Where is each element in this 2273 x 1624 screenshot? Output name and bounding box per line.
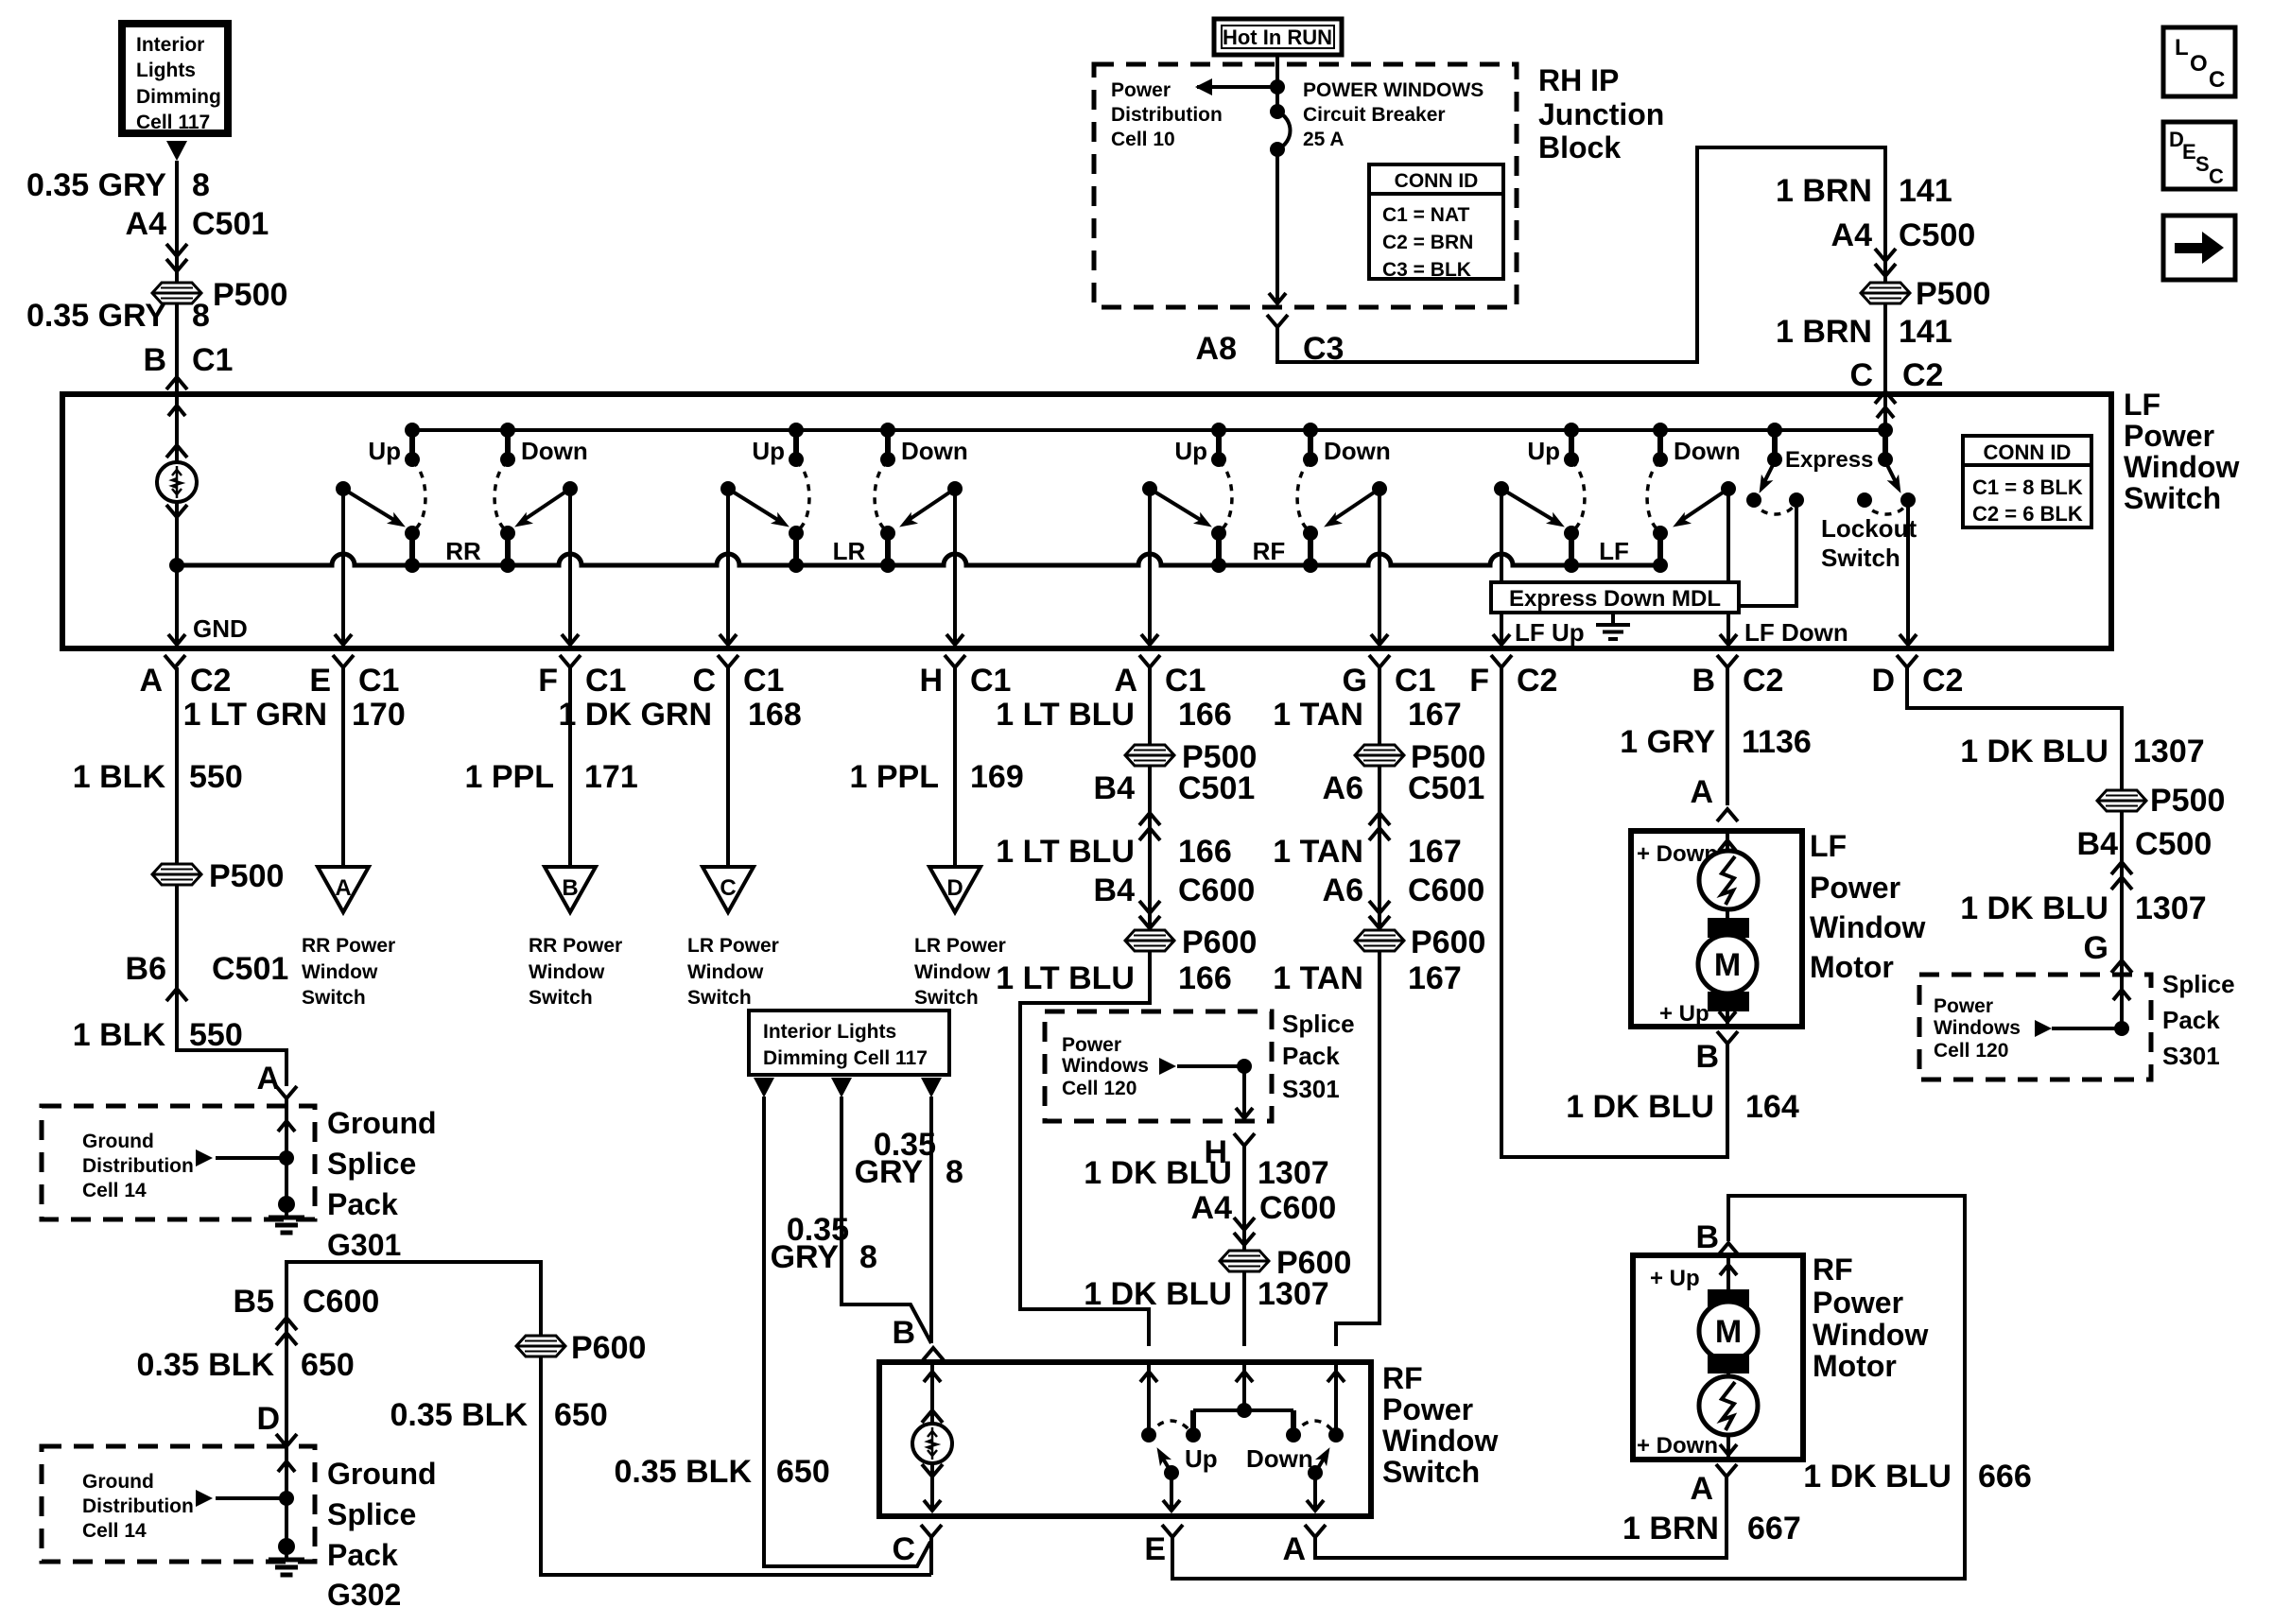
inline connector P500 (G C1) [1355,739,1485,775]
wire: 0.35 GRY 8 from Interior Lights Dimming to C501 [26,141,210,242]
svg-text:Window: Window [1813,1318,1928,1352]
svg-text:Cell 10: Cell 10 [1111,129,1175,150]
svg-text:F: F [1469,663,1489,699]
svg-text:LR Power: LR Power [914,935,1006,957]
inline connector P500 (top left) [152,277,287,313]
svg-text:Up: Up [1174,437,1207,465]
svg-text:B: B [562,875,578,901]
wire: 1 DK BLU 1307 (to splice G) [1960,890,2206,973]
connector: RF switch pin B [892,1315,944,1360]
svg-text:Cell 14: Cell 14 [82,1180,147,1201]
svg-text:1 TAN: 1 TAN [1273,697,1363,733]
svg-text:Power: Power [1111,79,1171,101]
wire: F C2 to LF motor B [1501,667,1727,1157]
svg-text:Ground: Ground [327,1457,437,1491]
svg-text:C501: C501 [192,206,269,242]
svg-text:168: 168 [748,697,802,733]
svg-text:A6: A6 [1323,872,1363,908]
svg-text:RR Power: RR Power [529,935,622,957]
svg-text:RR Power: RR Power [302,935,395,957]
svg-text:169: 169 [970,759,1024,795]
svg-text:C3 = BLK: C3 = BLK [1382,259,1471,281]
svg-text:M: M [1714,947,1741,983]
svg-text:Motor: Motor [1813,1349,1897,1383]
svg-text:B: B [1695,1219,1719,1255]
dashed box: Power Windows Cell 120 (S301 center) [1045,1010,1355,1121]
dashed box: Ground Distribution Cell 14 (G302) [42,1446,315,1562]
svg-text:Window: Window [1382,1424,1498,1458]
svg-text:Power: Power [1934,995,1993,1017]
wire: 1 LT GRN 170 (E C1) to RR switch [183,667,406,867]
wire: 1 PPL 171 (F C1) to RR switch [465,667,638,867]
svg-text:A4: A4 [1191,1190,1233,1226]
wire: 1 BRN 141 down to C500 [1776,173,1952,283]
svg-text:G301: G301 [327,1228,401,1262]
inline connector P500 (A C1) [1125,739,1257,775]
circuit breaker: POWER WINDOWS 25 A [1270,104,1291,157]
svg-text:Splice: Splice [327,1497,416,1531]
svg-text:A: A [1690,1471,1713,1507]
svg-text:LF: LF [2124,388,2160,422]
svg-text:Block: Block [1538,130,1621,164]
svg-text:D: D [256,1401,280,1437]
svg-text:0.35 BLK: 0.35 BLK [390,1397,529,1433]
svg-text:1 BLK: 1 BLK [73,1017,166,1053]
connector: LF motor pin B [1695,1031,1738,1075]
svg-text:LF Up: LF Up [1515,618,1585,647]
svg-text:F: F [538,663,558,699]
svg-text:B: B [143,342,166,378]
dashed box: RH IP Junction Block [1094,64,1517,307]
triangle C: LR Power Window Switch [687,867,779,1009]
svg-text:141: 141 [1899,314,1952,350]
wire: 0.35 GRY 8 (left lamp feed) [771,1078,931,1343]
svg-text:Circuit Breaker: Circuit Breaker [1303,104,1446,126]
svg-text:Up: Up [1527,437,1560,465]
wire: 1 DK BLU 1307 (to RF switch) [1084,1155,1328,1191]
svg-text:A: A [1690,774,1713,810]
svg-text:Down: Down [901,437,968,465]
svg-text:RF: RF [1382,1361,1423,1395]
connector: RF switch pin E [1144,1525,1183,1567]
wire: 1 BLK 550 to ground splice [73,1017,297,1098]
svg-text:C2: C2 [1517,663,1557,699]
svg-text:Power: Power [1062,1034,1121,1056]
svg-text:P600: P600 [1182,924,1257,960]
svg-text:+ Up: + Up [1650,1266,1700,1291]
svg-text:550: 550 [189,1017,243,1053]
svg-text:Pack: Pack [1282,1042,1340,1070]
box: forward arrow tab [2163,216,2235,280]
svg-text:Switch: Switch [1821,544,1900,572]
svg-text:C2: C2 [1922,663,1963,699]
svg-text:Window: Window [1810,910,1925,944]
svg-text:164: 164 [1745,1089,1799,1125]
svg-text:C: C [720,875,736,901]
svg-text:C2: C2 [1743,663,1783,699]
svg-text:B4: B4 [2077,826,2119,862]
svg-text:Distribution: Distribution [82,1495,194,1517]
svg-text:1307: 1307 [1258,1155,1329,1191]
svg-text:1 TAN: 1 TAN [1273,834,1363,870]
wire: 0.35 BLK 650 (left leg) [137,1334,355,1446]
svg-text:Window: Window [687,961,764,983]
svg-text:1 DK BLU: 1 DK BLU [1084,1155,1232,1191]
svg-text:C1: C1 [585,663,626,699]
svg-text:1307: 1307 [2133,734,2205,769]
svg-text:Hot In RUN: Hot In RUN [1223,26,1332,49]
svg-text:Pack: Pack [327,1187,398,1221]
svg-text:Express: Express [1785,447,1873,473]
svg-text:C: C [1849,357,1873,393]
svg-text:170: 170 [352,697,406,733]
svg-text:1 TAN: 1 TAN [1273,960,1363,996]
svg-text:Interior: Interior [136,34,204,56]
box: Interior Lights Dimming Cell 117 (center) [749,1011,949,1075]
svg-text:167: 167 [1408,834,1462,870]
svg-text:Cell 120: Cell 120 [1934,1040,2008,1062]
svg-text:Cell 120: Cell 120 [1062,1078,1136,1099]
svg-text:667: 667 [1747,1511,1801,1546]
connector C600 pin A6 [1323,872,1485,928]
wire: 1 LT BLU 166 (A C1) [996,667,1231,1346]
svg-text:Power: Power [1810,871,1900,905]
svg-text:B4: B4 [1094,872,1136,908]
connector: RF motor pin B [1695,1219,1739,1255]
motor: RF internals [1637,1255,1758,1460]
svg-text:A: A [256,1061,280,1097]
inline connector P600 (G C1) [1355,924,1485,960]
svg-text:Windows: Windows [1934,1017,2021,1039]
svg-text:M: M [1715,1314,1742,1350]
wire: breaker output down to C3 [1269,149,1286,304]
connector C1 pin B (switch top entry) [143,342,233,389]
switch RF up/down [1142,423,1391,573]
svg-text:1 DK BLU: 1 DK BLU [1960,734,2108,769]
svg-text:1307: 1307 [1258,1276,1329,1312]
ground splice pack G302 [196,1446,437,1612]
svg-text:1 BRN: 1 BRN [1776,173,1872,209]
svg-text:Down: Down [1324,437,1391,465]
svg-text:Switch: Switch [1382,1455,1480,1489]
box: Hot In RUN [1214,19,1342,55]
svg-text:LF: LF [1810,829,1847,863]
connector C3 pin A8 [1196,315,1345,367]
svg-text:P500: P500 [213,277,287,313]
wire: RF switch E to RF motor B loop [1172,1196,2032,1579]
connector C501 pin A6 [1323,770,1485,840]
wire: LF Up output [1493,613,1585,647]
svg-text:Express Down MDL: Express Down MDL [1509,586,1721,612]
inline connector P500 (top right) [1861,276,1990,312]
svg-text:Switch: Switch [529,987,593,1009]
svg-text:C1 = 8 BLK: C1 = 8 BLK [1972,475,2083,499]
svg-text:1 DK BLU: 1 DK BLU [1084,1276,1232,1312]
svg-text:1 PPL: 1 PPL [850,759,939,795]
svg-text:650: 650 [301,1347,355,1383]
wire: RF outputs to A/G [1141,489,1388,645]
svg-text:B: B [1692,663,1715,699]
svg-text:Up: Up [752,437,785,465]
svg-text:0.35 BLK: 0.35 BLK [615,1454,753,1490]
triangle B: RR Power Window Switch [529,867,622,1009]
svg-text:P600: P600 [1411,924,1485,960]
svg-text:LF Down: LF Down [1744,618,1848,647]
svg-text:C1: C1 [1395,663,1435,699]
inline connector P600 (center) [1220,1245,1351,1281]
svg-text:+ Down: + Down [1637,1433,1718,1459]
table: CONN ID (junction block) [1369,164,1503,281]
wire: LR outputs to C/H [720,489,963,645]
svg-text:171: 171 [584,759,638,795]
svg-text:1 BRN: 1 BRN [1622,1511,1719,1546]
wire: 0.35 GRY 8 (right lamp feed) [855,1078,963,1343]
svg-text:G: G [2084,930,2108,966]
table: CONN ID (switch) [1963,436,2091,527]
svg-text:Up: Up [1185,1444,1218,1473]
svg-text:Switch: Switch [2124,481,2221,515]
svg-text:Power: Power [1813,1286,1903,1320]
wire: 1 LT BLU 166 (lower) [996,960,1231,996]
svg-text:C: C [2209,164,2224,188]
svg-text:167: 167 [1408,697,1462,733]
svg-text:S: S [2195,152,2210,176]
svg-text:550: 550 [189,759,243,795]
svg-text:C600: C600 [1259,1190,1336,1226]
svg-text:C1: C1 [358,663,399,699]
svg-text:A6: A6 [1323,770,1363,806]
box: Interior Lights Dimming Cell 117 (top) [122,24,228,133]
connector C500 pin B4 [2077,811,2212,1028]
wire: 1 DK BLU 164 [1566,1089,1799,1125]
svg-text:C2 = 6 BLK: C2 = 6 BLK [1972,502,2083,526]
triangle A: RR Power Window Switch [302,867,395,1009]
svg-text:C600: C600 [1408,872,1484,908]
svg-text:E: E [1144,1531,1166,1567]
svg-text:GRY: GRY [771,1239,840,1275]
svg-text:Window: Window [2124,450,2239,484]
svg-text:166: 166 [1178,834,1232,870]
svg-text:RF: RF [1813,1253,1853,1287]
wire: 1 BLK 550 (A C2 down) [73,667,243,863]
wire: from C3 over to right BRN drop [1277,147,1885,362]
svg-text:Power: Power [1382,1392,1473,1426]
svg-text:0.35 GRY: 0.35 GRY [26,298,166,334]
svg-text:0.35 BLK: 0.35 BLK [137,1347,275,1383]
svg-text:C1 = NAT: C1 = NAT [1382,204,1470,226]
svg-text:Cell 14: Cell 14 [82,1520,147,1542]
wire: 1 DK GRN 168 (C C1) to LR switch [559,667,802,867]
wire: 1 TAN 167 (mid) [1273,834,1461,870]
box: Express Down MDL [1491,582,1739,613]
svg-text:C1: C1 [970,663,1011,699]
connector C600 pin B4 [1094,872,1256,928]
svg-text:D: D [946,875,963,901]
svg-text:Windows: Windows [1062,1055,1149,1077]
svg-text:LR: LR [833,537,866,565]
wire: interior lights return 0.35 BLK 650 [615,1078,931,1566]
svg-text:C: C [2209,67,2225,93]
svg-text:A: A [139,663,163,699]
svg-text:1307: 1307 [2135,890,2207,926]
svg-text:LR Power: LR Power [687,935,779,957]
ground: Express Down MDL [1596,613,1630,639]
connector pins below switch [139,655,231,699]
box: LOC tab [2163,27,2235,96]
svg-text:Window: Window [302,961,378,983]
svg-text:E: E [2182,140,2196,164]
svg-text:B6: B6 [126,951,166,987]
svg-text:C1: C1 [743,663,784,699]
svg-text:Dimming Cell 117: Dimming Cell 117 [763,1047,928,1069]
svg-text:CONN ID: CONN ID [1984,441,2072,464]
switch: RF up/down internals [1140,1362,1345,1511]
svg-text:CONN ID: CONN ID [1395,170,1479,192]
switch LF up/down [1494,423,1741,573]
wire: Hot In RUN feed into junction block [1275,55,1279,112]
svg-text:Down: Down [1246,1444,1313,1473]
svg-text:Motor: Motor [1810,950,1894,984]
box: LF Power Window Switch (main) [62,394,2111,648]
svg-text:G302: G302 [327,1578,401,1612]
lamp: switch illumination [157,394,248,645]
svg-text:H: H [919,663,943,699]
splice S301 center output [1159,1058,1253,1118]
svg-text:RR: RR [445,537,481,565]
wire: 1 LT BLU 166 (mid) [996,834,1231,870]
svg-text:B5: B5 [234,1284,274,1320]
svg-text:Ground: Ground [82,1471,154,1493]
wire: 1 GRY 1136 (B C2 to LF motor A) [1620,667,1812,821]
svg-text:C600: C600 [303,1284,379,1320]
wire: 0.35 GRY 8 from P500 to switch C1 pin B [26,298,210,394]
splice S301 right input [2035,990,2130,1037]
svg-text:RF: RF [1253,537,1286,565]
svg-text:Lockout: Lockout [1821,514,1917,543]
svg-text:LF: LF [1599,537,1629,565]
svg-text:A: A [1114,663,1137,699]
connector C501 pin B4 [1094,770,1256,840]
svg-text:1 DK BLU: 1 DK BLU [1960,890,2108,926]
inline connector P500 (left mid) [152,858,284,894]
svg-text:A4: A4 [126,206,167,242]
svg-text:Dimming: Dimming [136,86,221,108]
svg-text:S301: S301 [1282,1075,1340,1103]
wire: 1 TAN 167 (lower) [1273,960,1461,996]
switch: Lockout [1821,394,1917,572]
svg-text:Cell 117: Cell 117 [136,112,210,133]
svg-text:C2: C2 [190,663,231,699]
svg-text:0.35 GRY: 0.35 GRY [26,167,166,203]
svg-text:1 DK BLU: 1 DK BLU [1566,1089,1714,1125]
dashed box: Ground Distribution Cell 14 (G301) [42,1106,315,1219]
connector: RF switch pin C [892,1525,942,1575]
svg-text:1 LT BLU: 1 LT BLU [996,834,1135,870]
svg-text:B: B [892,1315,915,1351]
ground splice pack G301 [196,1098,437,1262]
svg-text:666: 666 [1978,1459,2032,1494]
svg-text:8: 8 [192,298,210,334]
svg-text:1 LT GRN: 1 LT GRN [183,697,327,733]
svg-text:Pack: Pack [327,1538,398,1572]
svg-text:Switch: Switch [302,987,366,1009]
svg-text:Distribution: Distribution [82,1155,194,1177]
svg-text:P500: P500 [1916,276,1990,312]
wire: LF Down output [1720,613,1848,647]
svg-text:1 GRY: 1 GRY [1620,724,1715,760]
switch: Express [1741,423,1873,606]
svg-text:C501: C501 [1408,770,1484,806]
triangle D: LR Power Window Switch [914,867,1006,1009]
svg-text:Distribution: Distribution [1111,104,1223,126]
wire: 1 DK BLU 1307 (lower) [1084,1276,1328,1312]
svg-text:25 A: 25 A [1303,129,1345,150]
connector: RF motor pin A [1690,1464,1737,1507]
switch LR up/down [720,423,968,573]
lamp: RF switch illumination [912,1362,952,1511]
svg-text:RH IP: RH IP [1538,63,1619,97]
svg-text:8: 8 [946,1154,963,1190]
connector C501 pin A4 [126,206,269,283]
svg-text:1 DK GRN: 1 DK GRN [559,697,712,733]
svg-text:O: O [2190,51,2208,77]
svg-text:Pack: Pack [2162,1006,2220,1034]
wire: 1 BRN 141 from P500 to switch C2 pin C [1776,303,1952,394]
svg-text:A4: A4 [1831,217,1873,253]
svg-text:Up: Up [368,437,401,465]
wire: 0.35 BLK 650 (P600 to RF switch C) [390,1356,932,1575]
svg-text:Power: Power [2124,419,2214,453]
svg-text:+ Up: + Up [1659,1001,1709,1027]
svg-text:8: 8 [192,167,210,203]
wire: 1 BRN 667 (RF switch A to RF motor A) [1315,1477,1801,1558]
connector: RF switch pin A [1282,1525,1326,1567]
svg-text:Window: Window [529,961,605,983]
svg-text:1 LT BLU: 1 LT BLU [996,960,1135,996]
box: RF Power Window Switch [879,1361,1498,1516]
dashed box: Power Windows Cell 120 (S301 right) [1919,970,2235,1080]
svg-text:POWER WINDOWS: POWER WINDOWS [1303,79,1484,101]
wire: RR outputs to E/F [335,489,579,645]
box: DESC tab [2163,122,2235,189]
svg-text:Splice: Splice [1282,1010,1355,1038]
svg-text:P500: P500 [2150,783,2225,819]
svg-text:166: 166 [1178,697,1232,733]
svg-text:1 LT BLU: 1 LT BLU [996,697,1135,733]
svg-text:Junction: Junction [1538,97,1664,131]
svg-text:E: E [309,663,331,699]
box: LF Power Window Motor [1631,829,1925,1027]
wire: lockout output to D [1900,500,1917,645]
svg-text:L: L [2175,35,2189,60]
svg-text:C1: C1 [1165,663,1206,699]
wire: arrow to Power Distribution Cell 10 [1195,78,1285,95]
svg-text:1136: 1136 [1742,724,1812,760]
wire: B5 C600 link to P600 [234,1262,541,1345]
svg-text:P600: P600 [571,1330,646,1366]
svg-text:B: B [1695,1039,1719,1075]
connector C2 pin C (switch top entry) [1849,357,1943,404]
switch RR up/down [336,423,588,573]
svg-text:Interior Lights: Interior Lights [763,1021,896,1043]
svg-text:8: 8 [859,1239,877,1275]
svg-text:Switch: Switch [914,987,979,1009]
inline connector P600 (bottom left) [516,1330,646,1366]
svg-text:1 DK BLU: 1 DK BLU [1803,1459,1952,1494]
svg-text:Splice: Splice [327,1147,416,1181]
wire: top rail (battery feed common) [412,428,1885,432]
svg-text:1 BLK: 1 BLK [73,759,166,795]
